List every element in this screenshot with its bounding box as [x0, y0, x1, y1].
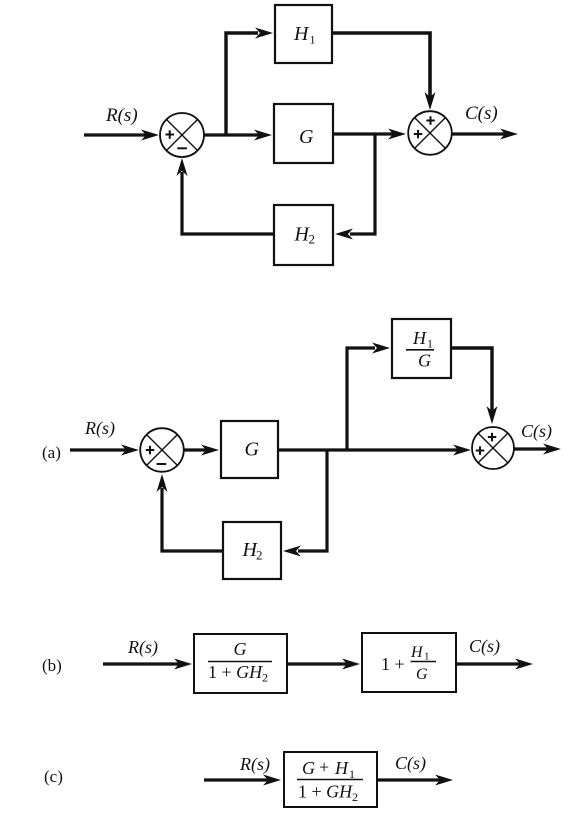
wire branch down to H2 diagram a	[283, 450, 327, 557]
svg-text:2: 2	[256, 548, 263, 563]
svg-text:1: 1	[310, 33, 316, 47]
summing junction A1	[140, 428, 184, 472]
block (G+H1)/(1+GH2)	[284, 752, 377, 807]
svg-text:1 + GH: 1 + GH	[298, 782, 353, 802]
plus sign A1	[146, 446, 155, 455]
svg-text:+: +	[319, 757, 329, 777]
svg-text:G: G	[245, 439, 260, 461]
svg-text:G: G	[234, 639, 247, 659]
svg-text:H: H	[334, 758, 349, 778]
svg-text:C(s): C(s)	[465, 103, 498, 124]
wire output diagram c	[377, 775, 453, 786]
wire takeoff down to H2	[335, 134, 375, 240]
wire H1 to summing junction 2	[332, 33, 436, 110]
svg-text:(c): (c)	[44, 767, 63, 786]
minus sign A1	[157, 463, 167, 465]
svg-text:1: 1	[427, 337, 433, 351]
svg-text:H: H	[412, 328, 427, 348]
svg-text:H: H	[293, 23, 310, 45]
plus sign A2 top	[488, 433, 497, 442]
wire H2 back to S1	[177, 158, 275, 234]
svg-text:G: G	[299, 126, 314, 148]
wire output C(s) top	[451, 129, 518, 140]
wire output C(s) diagram a	[514, 444, 562, 455]
wire output diagram b	[456, 659, 533, 670]
svg-text:C(s): C(s)	[469, 636, 500, 657]
wire G to summing junction A2	[278, 445, 471, 456]
wire input to summing junction 1	[84, 130, 159, 141]
block H2 diagram a	[223, 522, 281, 579]
wire A1 to G	[184, 445, 220, 456]
wire G to summing junction 2	[333, 129, 406, 140]
svg-text:2: 2	[309, 232, 316, 247]
svg-text:R(s): R(s)	[105, 105, 138, 126]
svg-text:(a): (a)	[42, 443, 61, 462]
block H1	[275, 5, 332, 63]
svg-text:G: G	[416, 666, 428, 683]
plus sign A2 left	[476, 446, 485, 455]
wire input diagram b	[103, 659, 192, 670]
block 1+H1/G	[362, 633, 456, 692]
wire S1 to G	[203, 130, 272, 141]
wire H2 back to A1	[157, 474, 224, 551]
svg-text:2: 2	[352, 790, 358, 804]
svg-text:G: G	[302, 758, 315, 778]
summing junction A2	[472, 427, 514, 469]
wire b1 to b2	[287, 659, 360, 670]
wire branch up to H1	[226, 28, 273, 136]
summing junction S2	[408, 111, 452, 155]
svg-text:G: G	[418, 351, 431, 371]
svg-text:R(s): R(s)	[239, 754, 270, 775]
block G/(1+GH2)	[194, 634, 287, 693]
plus sign S1	[166, 130, 175, 139]
svg-text:C(s): C(s)	[395, 753, 426, 774]
svg-text:R(s): R(s)	[84, 418, 115, 439]
wire branch up to H1/G	[347, 343, 390, 451]
svg-text:R(s): R(s)	[127, 637, 158, 658]
block H2	[274, 205, 333, 265]
svg-text:1: 1	[424, 651, 430, 663]
minus sign S1	[177, 147, 187, 149]
svg-text:(b): (b)	[42, 656, 62, 675]
svg-text:C(s): C(s)	[521, 421, 552, 442]
svg-text:2: 2	[262, 671, 268, 685]
wire input to summing junction A1	[70, 445, 139, 456]
block G diagram a	[221, 421, 278, 478]
svg-text:1 + GH: 1 + GH	[208, 662, 263, 682]
svg-text:1 +: 1 +	[381, 654, 405, 674]
plus sign S2 top	[426, 116, 435, 125]
wire H1/G down to A2	[451, 348, 498, 424]
block G	[274, 104, 333, 163]
summing junction S1	[160, 113, 204, 157]
wire input diagram c	[204, 775, 281, 786]
plus sign S2 left	[414, 130, 423, 139]
svg-text:H: H	[410, 644, 424, 661]
block H1/G	[392, 319, 451, 378]
